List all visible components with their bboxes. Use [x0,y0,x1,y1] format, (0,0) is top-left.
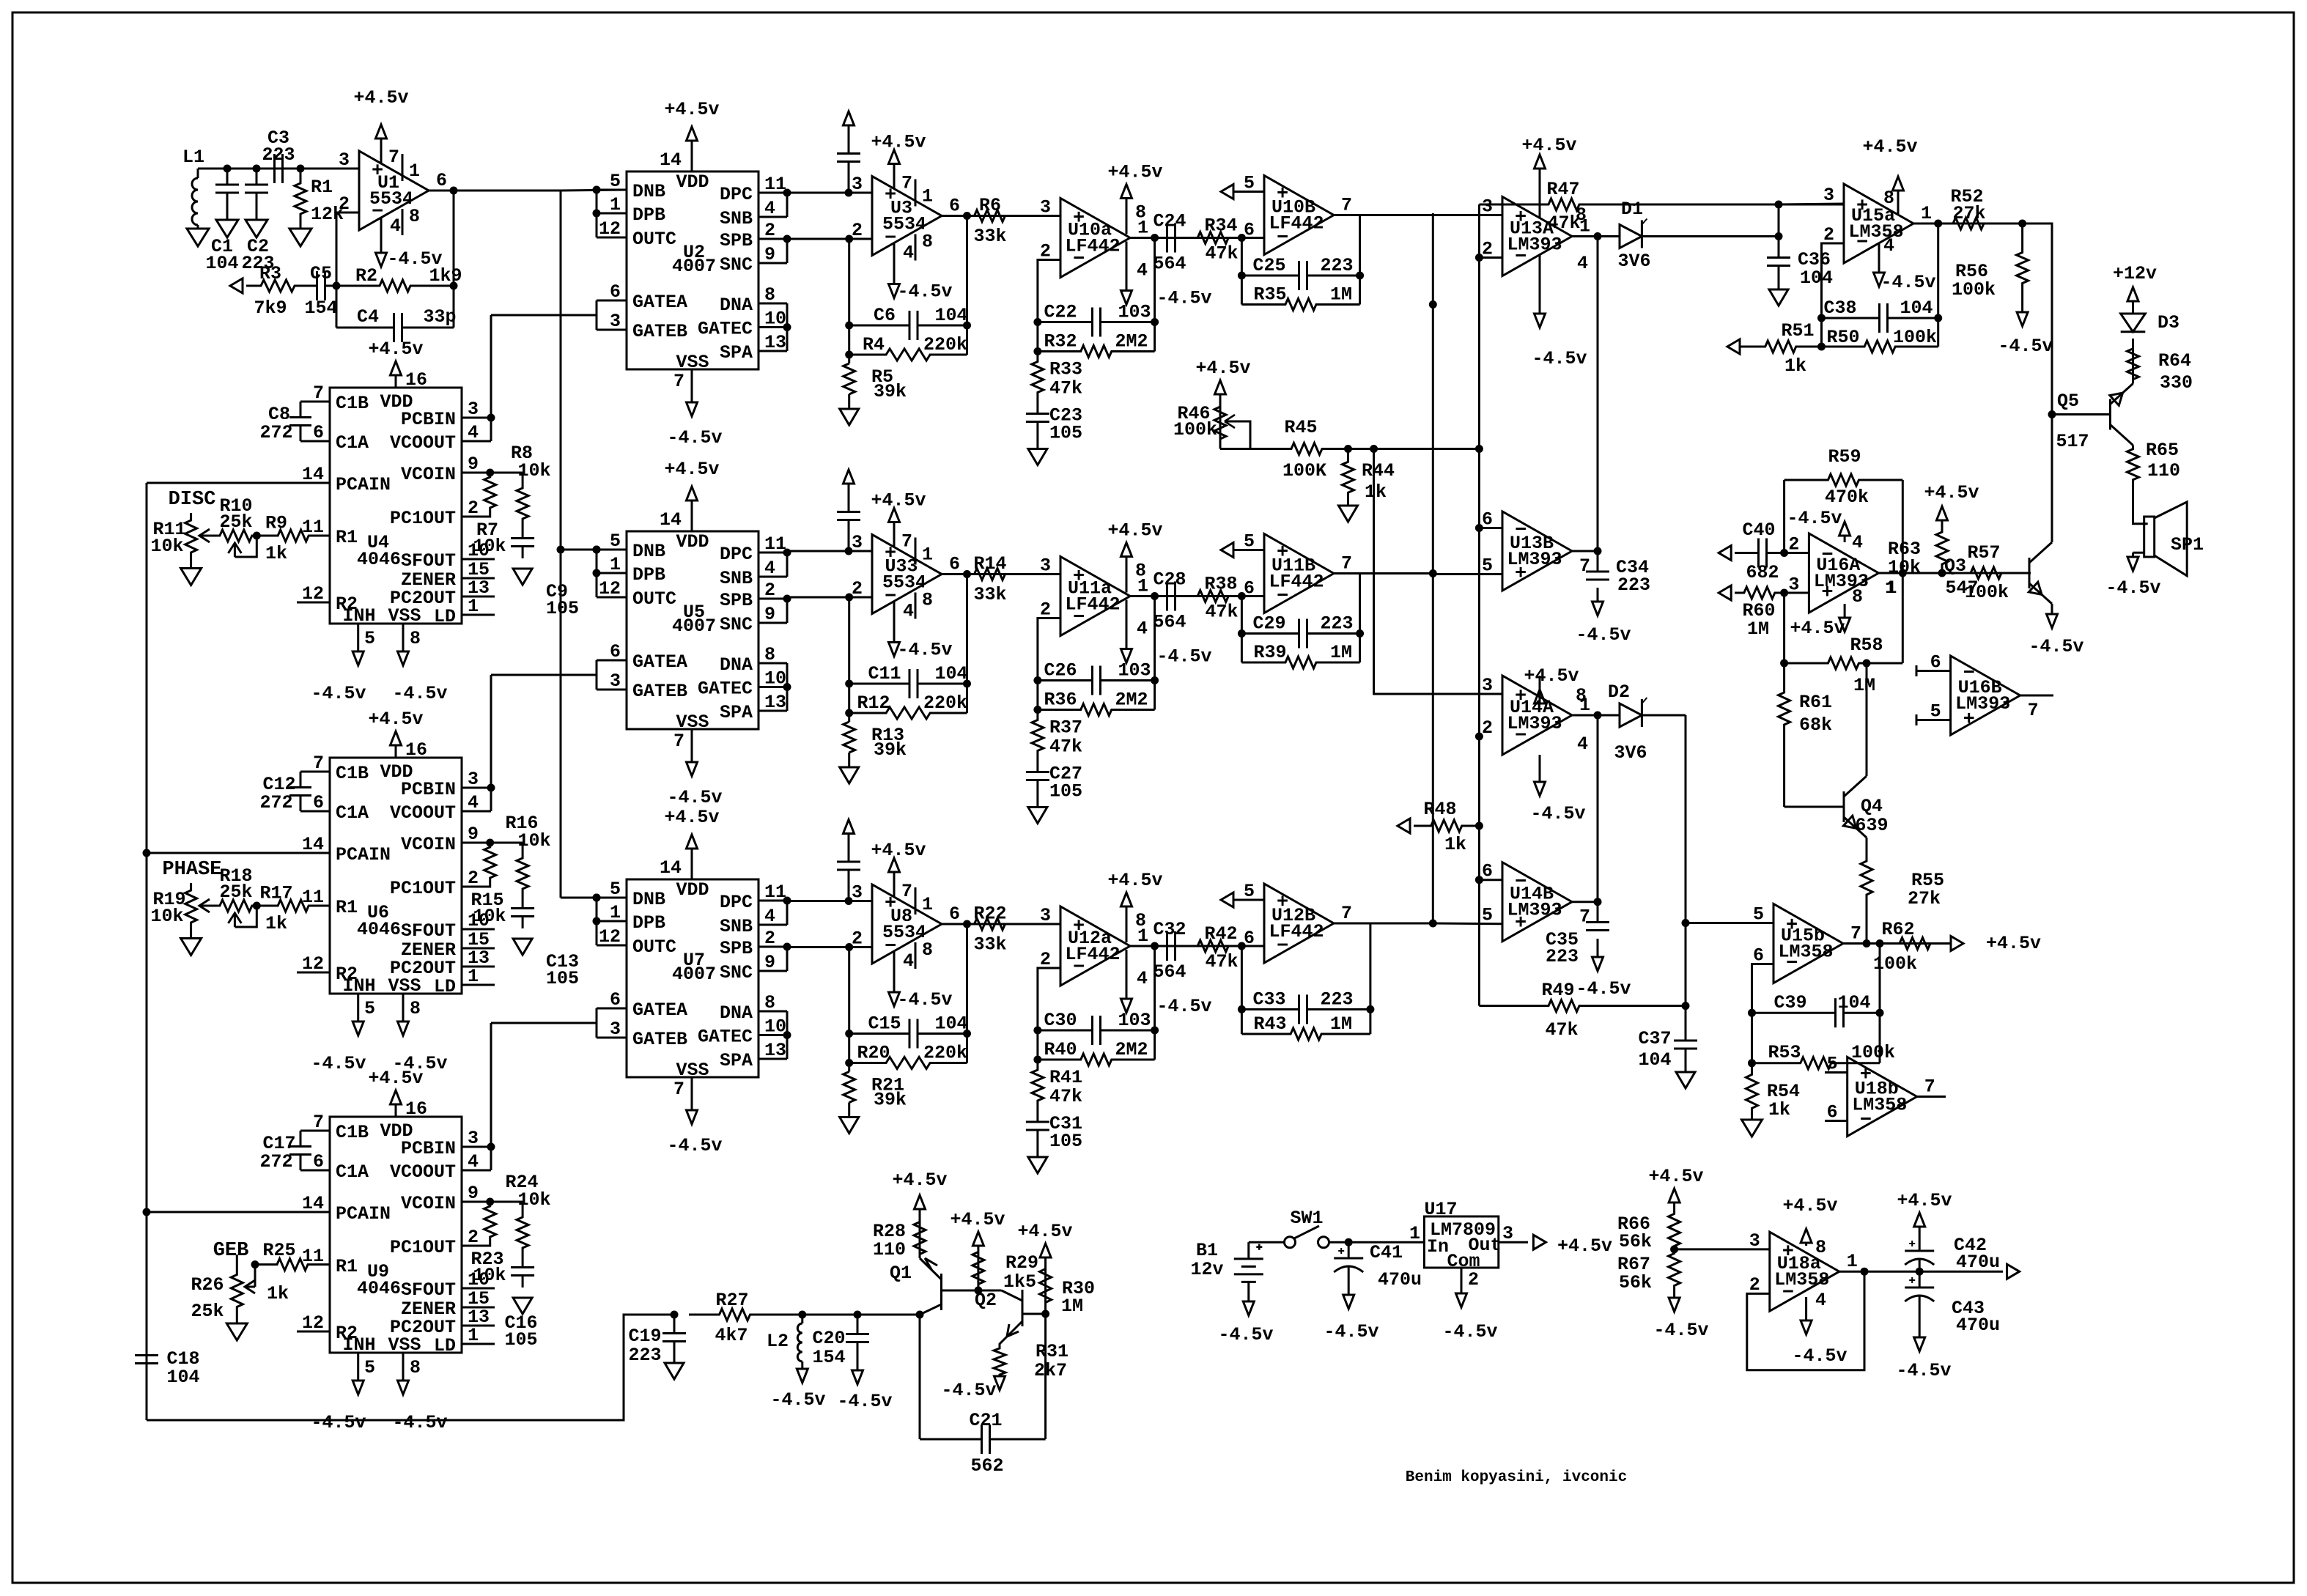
svg-text:R34: R34 [1204,215,1237,237]
svg-text:+4.5v: +4.5v [871,490,926,511]
svg-text:C1A: C1A [336,1161,369,1183]
svg-text:1M: 1M [1330,1013,1352,1035]
resistor R33 47k [1032,352,1044,403]
resistor R55 27k [1861,850,1872,906]
svg-text:LD: LD [434,976,456,997]
resistor R7 [486,469,494,477]
svg-text:8: 8 [922,590,933,611]
svg-text:5: 5 [1482,905,1493,926]
svg-text:2: 2 [852,928,863,950]
svg-text:-4.5v: -4.5v [1792,1345,1847,1367]
svg-text:12: 12 [302,953,324,975]
svg-text:DPC: DPC [720,184,753,205]
capacitor C22 103 [1038,321,1093,323]
svg-text:7: 7 [313,753,324,774]
bottom loop wire to oscillator [147,1315,674,1420]
svg-text:3: 3 [852,532,863,553]
svg-text:+4.5v: +4.5v [1107,870,1162,891]
svg-text:6: 6 [610,641,621,662]
svg-text:C22: C22 [1044,302,1077,323]
U6 pin 7 C1B [300,771,330,773]
op-amp U14B LM393 [1502,862,1572,942]
resistor R51 1k [1740,341,1822,352]
capacitor C16 [522,1263,524,1268]
svg-text:LM358: LM358 [1778,942,1833,963]
svg-text:1: 1 [922,544,933,566]
resistor R44 1k [1343,449,1354,506]
svg-text:330: 330 [2160,372,2193,394]
svg-text:GATEA: GATEA [632,1000,687,1021]
wire U14B output [1572,901,1598,903]
svg-text:SNB: SNB [720,916,753,937]
svg-text:+4.5v: +4.5v [892,1170,947,1191]
left trunk PCAIN vertical [146,483,148,1420]
svg-text:1k: 1k [1365,481,1387,503]
resistor R32 2M2 [1038,346,1155,358]
inductor L1 [197,169,199,178]
U7 right bracket SPB-SNC [786,947,789,971]
svg-text:7: 7 [313,1112,324,1133]
svg-text:2k7: 2k7 [1034,1360,1067,1381]
svg-text:1: 1 [1847,1251,1858,1272]
svg-text:R47: R47 [1546,179,1579,200]
U9 pin 9 VCOIN [462,1201,523,1203]
pot R46 100k [1219,444,1222,449]
svg-text:564: 564 [1153,961,1186,983]
svg-text:7: 7 [388,147,399,168]
U5 VDD pin 14 +4.5v [691,500,693,531]
U2 pin 5 DNB [597,189,627,191]
svg-text:R49: R49 [1541,980,1574,1001]
svg-text:DPC: DPC [720,892,753,913]
svg-text:3: 3 [852,174,863,195]
svg-text:DNA: DNA [720,295,753,316]
wire trunk to U13A pin3 [1432,213,1434,215]
svg-text:7: 7 [901,881,912,902]
wire U33 out [942,573,1060,575]
regulator U17 LM7809 box [1424,1216,1498,1268]
svg-text:R22: R22 [973,904,1006,925]
svg-text:223: 223 [1320,989,1353,1010]
svg-text:12: 12 [599,926,621,947]
U7 pin 4 SNB [758,924,787,926]
svg-text:R29: R29 [1005,1252,1038,1274]
capacitor C4 33p [336,327,394,329]
wire U11B output [1334,572,1433,575]
svg-text:14: 14 [660,509,682,531]
svg-text:C24: C24 [1153,211,1186,232]
resistor R4 220k [849,349,967,361]
resistor R22 33k [974,918,1005,930]
svg-text:100K: 100K [1282,460,1326,481]
resistor R30 1M [1040,1257,1052,1314]
resistor R41 47k [1032,1060,1044,1111]
svg-text:INH: INH [342,1334,375,1356]
U5 left bracket DNB-DPB-OUTC [596,550,598,597]
U5 pin 5 DNB [597,549,627,551]
wire U8 out [942,923,1060,926]
wire PCAIN ch1 [147,482,300,484]
svg-text:+4.5v: +4.5v [1017,1221,1072,1242]
svg-text:C29: C29 [1252,613,1285,635]
svg-text:SPA: SPA [720,1050,753,1071]
svg-text:B1: B1 [1196,1240,1218,1261]
svg-text:9: 9 [468,1183,479,1204]
svg-text:1k: 1k [265,913,287,934]
svg-text:C40: C40 [1742,520,1775,541]
svg-text:4: 4 [1137,260,1148,281]
svg-text:25k: 25k [219,882,252,903]
svg-text:-4.5v: -4.5v [2029,636,2083,657]
svg-text:-4.5v: -4.5v [1324,1321,1378,1342]
svg-text:C1A: C1A [336,432,369,454]
resistor R39 1M [1241,657,1359,668]
svg-text:272: 272 [259,422,292,443]
svg-text:9: 9 [764,244,775,265]
svg-text:2: 2 [1749,1274,1760,1296]
U2 VDD pin 14 +4.5v [691,141,693,171]
svg-text:1k5: 1k5 [1003,1271,1036,1293]
svg-text:470u: 470u [1956,1252,2000,1273]
svg-text:R12: R12 [857,692,890,714]
svg-text:-4.5v: -4.5v [1156,996,1211,1017]
svg-text:4007: 4007 [672,616,716,637]
U9 pin 6 C1A [300,1170,330,1172]
svg-text:INH: INH [342,975,375,997]
svg-text:+4.5v: +4.5v [1897,1190,1952,1211]
capacitor C10 104 bypass [848,520,850,552]
capacitor C24 564 [1166,223,1168,253]
capacitor C41 470u polarized [1348,1242,1350,1258]
U9 VDD pin 16 +4.5v [395,1104,397,1117]
capacitor C35 223 [1597,902,1599,923]
U9 pin 12 R2 [297,1331,330,1333]
gate-to-VCOOUT vertical ch1 [490,315,492,441]
capacitor C32 564 [1166,931,1168,961]
svg-text:-4.5v: -4.5v [311,1412,366,1433]
svg-text:104: 104 [1638,1049,1671,1071]
U2 pin 6 GATEA [597,300,627,302]
capacitor C29 223 [1241,632,1299,635]
svg-text:5534: 5534 [882,214,926,235]
capacitor C6 104 [849,325,909,327]
power +4.5v U12a [1126,906,1128,942]
svg-text:1: 1 [1885,577,1896,599]
svg-text:6: 6 [313,792,324,813]
svg-text:+4.5v: +4.5v [1986,933,2041,954]
svg-text:C4: C4 [357,306,379,328]
svg-text:6: 6 [949,554,960,575]
ground under R13 [840,767,859,783]
svg-text:12: 12 [599,578,621,599]
svg-text:R2: R2 [355,265,377,287]
svg-text:PCAIN: PCAIN [336,844,391,865]
svg-text:R45: R45 [1284,417,1317,438]
U7 left bracket DNB-DPB-OUTC [596,898,598,945]
op-amp U10B LF442 [1264,176,1334,255]
svg-text:LD: LD [434,1335,456,1356]
svg-text:4: 4 [1883,235,1894,256]
svg-text:9: 9 [764,952,775,973]
op-amp U12a LF442 [1060,906,1130,986]
svg-text:47k: 47k [1547,213,1580,234]
svg-text:223: 223 [628,1345,661,1366]
svg-text:R33: R33 [1049,359,1082,380]
svg-text:7: 7 [1924,1076,1935,1098]
svg-text:4: 4 [1577,253,1588,274]
svg-text:VDD: VDD [676,879,709,901]
svg-text:1M: 1M [1747,618,1769,640]
svg-text:R38: R38 [1204,574,1237,595]
Q3 emitter to -4.5v [2051,604,2053,614]
pin4 power stem -4.5v U1 [380,218,383,242]
svg-text:10k: 10k [517,830,550,851]
svg-text:6: 6 [436,170,447,191]
svg-text:6: 6 [1482,509,1493,531]
svg-text:-4.5v: -4.5v [1530,803,1585,824]
svg-text:470k: 470k [1825,487,1869,508]
capacitor C39 104 [1752,1012,1836,1014]
resistor R21 39k [848,1063,850,1072]
svg-text:7: 7 [2028,700,2039,721]
svg-text:2M2: 2M2 [1115,690,1148,711]
wire U16A output [1878,572,2031,575]
svg-text:4: 4 [390,215,401,237]
U2 pin 13 SPA [758,350,787,352]
svg-text:14: 14 [660,149,682,171]
svg-text:1k9: 1k9 [429,265,462,287]
U4 pin 3 PCBIN [462,417,491,419]
D2 node vertical to C37 [1685,715,1687,1036]
svg-text:-4.5v: -4.5v [941,1380,996,1401]
svg-text:D3: D3 [2157,312,2179,333]
svg-text:272: 272 [259,1151,292,1172]
wire SPB to pin2 U33 [787,596,872,599]
svg-text:6: 6 [313,1151,324,1172]
svg-text:2M2: 2M2 [1115,331,1148,352]
svg-text:C33: C33 [1252,989,1285,1010]
connector arrow R60 input [1719,585,1731,600]
U9 pin 15 ZENER [462,1307,495,1309]
svg-text:4: 4 [903,601,914,622]
wire U12a output [1130,945,1264,947]
wire Q3 collector up [2051,415,2053,543]
power +4.5v U13A [1539,169,1541,218]
svg-text:4007: 4007 [672,964,716,985]
U5 pin 10 GATEC [758,686,787,688]
svg-text:C30: C30 [1044,1010,1077,1031]
capacitor C21 562 [920,1438,982,1441]
resistor R34 47k [1184,232,1241,244]
U7 pin 8 DNA [758,1011,787,1013]
svg-text:DISC: DISC [169,489,216,511]
wire U14A out to D2 [1572,714,1620,717]
svg-text:4: 4 [903,950,914,972]
wire R66/R67 to U18a pin3 [1675,1248,1770,1250]
wire PCAIN ch3 [147,1211,300,1213]
svg-text:R65: R65 [2146,440,2179,461]
U9 INH pin 5 -4.5v [357,1353,359,1367]
svg-text:7: 7 [673,731,684,752]
svg-text:220k: 220k [923,692,967,714]
svg-text:R50: R50 [1826,327,1859,348]
svg-text:LD: LD [434,606,456,627]
op-amp U18b LM358 [1848,1057,1917,1137]
power -4.5v above U16A (up arrow) [1844,536,1846,542]
svg-text:4007: 4007 [672,256,716,277]
neg supply under C35 [1597,939,1599,957]
svg-text:+4.5v: +4.5v [1521,135,1576,156]
svg-text:R43: R43 [1253,1013,1286,1035]
svg-text:33p: 33p [423,306,456,328]
svg-text:SNB: SNB [720,208,753,229]
gate-to-VCOOUT vertical ch2 [490,675,492,811]
T2 left vertical U11a [1038,618,1060,710]
svg-text:-4.5v: -4.5v [1442,1321,1497,1342]
pot R10 horizontal [218,530,254,542]
neg supply under R31 [999,1375,1001,1378]
svg-text:6: 6 [1244,578,1255,599]
svg-text:R31: R31 [1036,1341,1068,1362]
svg-text:-4.5v: -4.5v [1156,288,1211,309]
svg-text:GATEC: GATEC [698,679,753,700]
svg-text:SNC: SNC [720,254,753,276]
svg-text:1: 1 [468,966,479,987]
R59/R58 right vertical [1902,480,1904,663]
svg-text:Q4: Q4 [1861,796,1883,817]
op-amp U33 5534 [872,535,942,614]
capacitor C40 682 [1735,552,1759,554]
wire D2 node to U15b pin5 [1686,922,1773,924]
svg-text:4046: 4046 [357,1278,401,1299]
svg-text:9: 9 [764,604,775,625]
svg-text:DNA: DNA [720,1002,753,1024]
svg-text:DNA: DNA [720,654,753,676]
U9 pin 4 VCOOUT [462,1170,491,1172]
resistor R60 1M [1735,587,1784,599]
resistor R23 [486,1198,494,1206]
power +4.5v above R28 [919,1209,921,1218]
svg-text:223: 223 [1320,613,1353,635]
resistor R62 100k [1889,938,1941,950]
power -4.5v U12a [1126,950,1128,999]
U6 pin 6 C1A [300,810,330,813]
svg-text:47k: 47k [1545,1019,1578,1041]
svg-text:3: 3 [1749,1230,1760,1252]
svg-text:564: 564 [1153,254,1186,275]
U2 VSS pin 7 -4.5v [691,369,693,388]
svg-text:47k: 47k [1205,243,1238,265]
svg-text:8: 8 [1883,188,1894,209]
svg-text:LF442: LF442 [1269,572,1324,593]
U16B output stub [2020,695,2053,697]
svg-text:+4.5v: +4.5v [1557,1235,1612,1257]
U7 gate bracket wire [596,1008,598,1038]
U5 pin 11 DPC [758,552,787,554]
svg-text:2: 2 [1482,239,1493,260]
capacitor C34 223 [1597,551,1599,572]
svg-text:PC1OUT: PC1OUT [390,508,456,529]
svg-text:223: 223 [1546,946,1579,967]
svg-text:-4.5v: -4.5v [667,427,722,448]
wire U13A out to D1 [1572,235,1620,237]
svg-text:-4.5v: -4.5v [837,1391,892,1412]
U6 VDD pin 16 +4.5v [395,745,397,758]
svg-text:100k: 100k [1173,419,1217,440]
svg-text:1k: 1k [265,543,287,564]
op-amp U16A LM393 [1809,533,1878,613]
T2 right vertical U11a [1153,596,1156,710]
svg-text:In: In [1427,1236,1449,1257]
U5 right bracket DNA-GATEC-SPA [786,663,789,711]
svg-text:LF442: LF442 [1065,236,1120,257]
svg-text:SFOUT: SFOUT [401,550,456,572]
svg-text:SNC: SNC [720,614,753,635]
transistor Q4 639 [1843,791,1845,822]
U4 pin 13 PC2OUT [462,596,495,598]
svg-text:3: 3 [1482,675,1493,696]
svg-text:105: 105 [1049,1131,1082,1152]
diode D2 3V6 [1620,703,1642,727]
U2 pin 8 DNA [758,303,787,305]
power -4.5v U3 [893,243,896,270]
capacitor C13 [522,904,524,909]
svg-text:-4.5v: -4.5v [770,1389,825,1411]
U17 pin2 Com -4.5v [1461,1268,1463,1281]
svg-text:C21: C21 [969,1410,1002,1431]
wire DPC to pin3 U33 [787,550,872,553]
ground under R19 [181,939,202,956]
svg-text:5: 5 [364,998,375,1019]
svg-text:7: 7 [1341,195,1352,216]
U5 VSS pin 7 -4.5v [691,729,693,748]
svg-text:C26: C26 [1044,660,1077,681]
svg-text:7: 7 [1579,555,1590,577]
U6 pin 12 R2 [297,972,330,974]
trunk vertical U1 out to U5 U7 DNB [560,191,562,898]
U5 pin 8 DNA [758,662,787,665]
resistor R64 330 [2127,344,2139,384]
svg-text:4: 4 [903,243,914,264]
svg-text:272: 272 [259,792,292,813]
connector arrow pin5 U10B [1221,185,1233,199]
svg-text:10: 10 [764,1016,786,1038]
U6 INH pin 5 -4.5v [357,994,359,1008]
svg-text:+4.5v: +4.5v [950,1209,1005,1230]
svg-text:562: 562 [970,1455,1003,1477]
svg-text:220k: 220k [923,334,967,355]
svg-text:223: 223 [1617,575,1650,596]
op-amp U11B LF442 [1264,534,1334,613]
neg supply under B1 [1247,1301,1250,1303]
svg-text:4: 4 [764,198,775,219]
wire threshold to U13A pin2 [1479,256,1502,259]
capacitor C14 104 bypass [848,870,850,901]
svg-text:C37: C37 [1638,1028,1671,1049]
svg-text:DPC: DPC [720,544,753,565]
U7 pin 3 GATEB [597,1037,627,1039]
power -4.5v U8 [893,952,896,978]
svg-text:+4.5v: +4.5v [664,99,719,120]
svg-text:517: 517 [2056,431,2089,452]
svg-text:VCOIN: VCOIN [401,464,456,485]
svg-text:47k: 47k [1049,736,1082,758]
svg-text:5: 5 [364,1357,375,1378]
U6 pin 2 PC1OUT [462,886,490,888]
U2 gate bracket wire [596,300,598,330]
svg-text:3: 3 [610,311,621,332]
wire U10B output [1334,214,1433,216]
